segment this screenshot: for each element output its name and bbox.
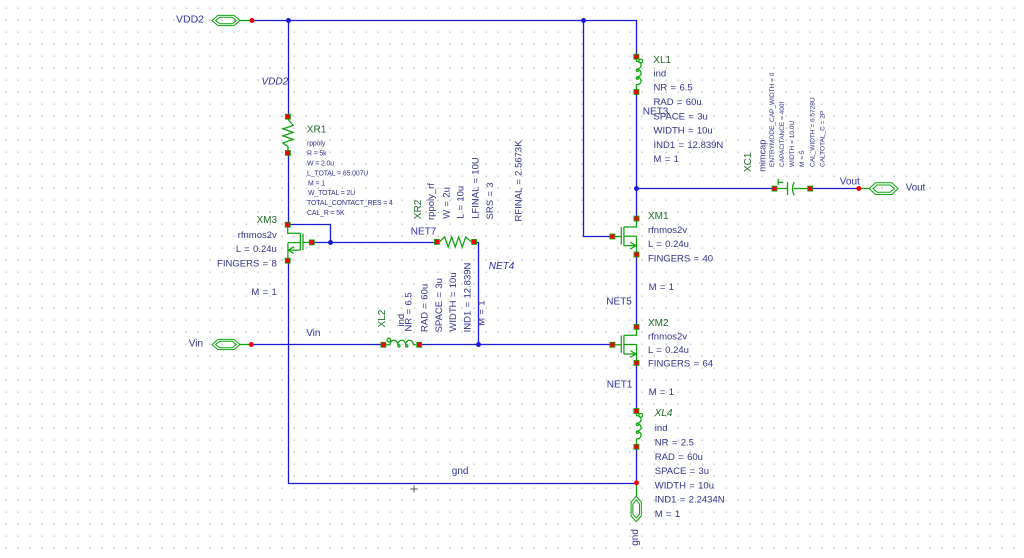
svg-text:rppoly_rf: rppoly_rf [426,183,437,220]
svg-text:TOTAL_CONTACT_RES = 4: TOTAL_CONTACT_RES = 4 [307,200,393,207]
svg-text:FINGERS = 40: FINGERS = 40 [648,253,713,264]
junction dot VDD2 rail x288 [286,18,291,23]
svg-text:WIDTH = 10u: WIDTH = 10u [448,272,459,331]
svg-text:ind: ind [654,68,667,79]
wire Vout pin stub [859,188,869,190]
wire VDD2 top rail [252,21,637,55]
svg-text:mimcap: mimcap [757,140,767,172]
svg-text:M = 1: M = 1 [251,287,276,298]
svg-text:Vout: Vout [906,183,926,194]
svg-text:SPACE = 3u: SPACE = 3u [434,278,445,332]
label XM1 params [648,225,713,293]
svg-text:R = 5k: R = 5k [307,151,327,158]
svg-text:M = 1: M = 1 [654,154,679,165]
XL2 pin squares [381,342,386,347]
svg-text:NET5: NET5 [606,296,632,307]
wire NET7 gate line to XR2 [314,242,434,244]
XM3 pin squares [285,222,290,227]
transistor XM2 body [615,330,637,361]
svg-text:IND1 = 12.839N: IND1 = 12.839N [463,262,474,332]
inductor XL1 body [636,59,642,89]
svg-text:WIDTH = 10u: WIDTH = 10u [654,126,713,137]
XC1 pin squares [772,186,777,191]
capacitor XC1 body mimcap [777,179,807,195]
svg-text:NET1: NET1 [607,380,633,391]
label XC1 params rotated [769,72,827,167]
svg-text:ind: ind [655,423,668,434]
svg-text:XM3: XM3 [256,215,277,226]
label XL1 params [654,68,724,165]
svg-text:SPACE = 3u: SPACE = 3u [654,111,708,122]
wire VDD2 to XR1 [288,21,290,115]
svg-text:W_TOTAL = 2U: W_TOTAL = 2U [308,190,355,197]
junction dot VDD2 rail x583 [581,18,586,23]
label XR2 params rotated [426,140,524,222]
junction dot XM3 gate tie [328,240,333,245]
wire XL1 to XM1 drain NET3 [636,95,638,217]
junction dot NET3 Vout tap [634,186,639,191]
wire XL4 to gnd junction [636,449,638,483]
svg-text:IND1 = 12.839N: IND1 = 12.839N [654,140,724,151]
junction dot Vout pin [856,186,861,191]
wire VDD2 pin stub [240,20,252,22]
svg-text:XR2: XR2 [413,199,424,219]
svg-text:XM1: XM1 [648,211,669,222]
svg-text:VDD2: VDD2 [262,77,289,88]
resistor XR2 body [439,237,471,247]
svg-text:rfnmos2v: rfnmos2v [238,230,277,241]
XL1 pin squares [634,54,639,59]
svg-text:M = 1: M = 1 [655,509,680,520]
pin Vin [212,339,240,349]
svg-text:WIDTH = 10u: WIDTH = 10u [655,480,714,491]
svg-text:rfnmos2v: rfnmos2v [648,331,687,342]
XR1 pin squares [285,114,290,119]
svg-text:L = 0.24u: L = 0.24u [236,244,277,255]
svg-text:IND1 = 2.2434N: IND1 = 2.2434N [655,495,725,506]
XR2 pin squares [434,239,439,244]
wire Vin rail XL2 to XM2 gate [422,344,610,346]
wire XR2 right corner down to NET4 [477,243,479,345]
svg-text:RFINAL = 2.5673K: RFINAL = 2.5673K [514,140,525,222]
wire XR1 to XM3 drain [288,155,290,222]
svg-text:LFINAL = 10U: LFINAL = 10U [470,157,481,219]
inductor XL2 body [386,338,416,347]
inductor XL4 body [636,413,642,443]
label XR1 params [307,141,393,217]
wire XM3 drain-gate tie [290,225,330,243]
svg-text:XL2: XL2 [377,309,388,327]
svg-text:NR = 6.5: NR = 6.5 [654,83,693,94]
XM1 pin squares [634,216,639,221]
XM2 pin squares [634,324,639,329]
svg-text:SPACE = 3u: SPACE = 3u [655,466,709,477]
svg-text:XM2: XM2 [648,318,669,329]
label XM3 params [217,230,277,298]
svg-text:L = 0.24u: L = 0.24u [648,345,689,356]
wire XC1 to Vout pin [813,188,859,190]
svg-text:FINGERS = 8: FINGERS = 8 [217,258,277,269]
svg-text:CAL_R = 5K: CAL_R = 5K [307,210,345,217]
junction dot Vin pin [249,342,254,347]
svg-text:NET7: NET7 [411,226,437,237]
junction dot NET4 Vin line [476,342,481,347]
svg-text:RAD = 60u: RAD = 60u [654,97,702,108]
label XL4 params [655,423,725,520]
wire Vin rail left [251,344,381,346]
svg-text:rfnmos2v: rfnmos2v [648,225,687,236]
svg-text:ENTRYMODE_CAP_WIDTH = 0: ENTRYMODE_CAP_WIDTH = 0 [769,72,776,167]
svg-text:M = 1: M = 1 [649,282,674,293]
svg-text:SRS = 3: SRS = 3 [485,182,496,219]
svg-text:NR = 6.5: NR = 6.5 [404,292,415,331]
svg-text:VDD2: VDD2 [176,13,204,25]
svg-text:XC1: XC1 [743,152,754,172]
label XL2 params rotated [396,262,488,332]
svg-text:NET4: NET4 [489,261,515,272]
wire NET5 XM1 source to XM2 drain [636,257,638,324]
origin cross [410,485,417,492]
junction dot gnd [634,480,639,485]
svg-text:CAPACITANCE = 400f: CAPACITANCE = 400f [779,101,786,167]
wire Vin pin stub [240,344,251,346]
svg-text:L = 10u: L = 10u [456,186,467,219]
svg-text:XR1: XR1 [307,125,327,136]
svg-text:RAD = 60u: RAD = 60u [420,284,431,332]
svg-text:RAD = 60u: RAD = 60u [655,452,703,463]
svg-text:FINGERS = 64: FINGERS = 64 [648,358,713,369]
svg-text:CAL_WIDTH = 6.5728U: CAL_WIDTH = 6.5728U [809,97,816,167]
svg-text:WIDTH = 10.0U: WIDTH = 10.0U [789,121,796,167]
wire XM3 source down and gnd rail [289,263,637,483]
svg-text:CALTOTAL_C = 2P: CALTOTAL_C = 2P [819,111,826,167]
pin VDD2 [212,15,240,25]
svg-text:rppoly: rppoly [307,141,326,148]
wire gnd pin stub [636,483,638,497]
wire NET1 XM2 source to XL4 [636,365,638,408]
svg-text:gnd: gnd [630,529,641,546]
svg-text:M = 1: M = 1 [649,387,674,398]
svg-text:XL1: XL1 [653,55,671,66]
svg-text:M = 1: M = 1 [477,300,488,325]
svg-text:gnd: gnd [452,466,469,477]
pin Vout [869,183,898,195]
wire VDD2 rail to XM1 gate [584,21,610,237]
svg-text:Vin: Vin [189,338,203,349]
svg-text:NR = 2.5: NR = 2.5 [655,438,694,449]
transistor XM1 body [615,221,637,252]
junction dot VDD2 pin [250,18,255,23]
XL4 pin squares [634,409,639,414]
transistor XM3 body mirrored [288,227,310,258]
svg-text:M = 5: M = 5 [799,150,806,167]
pin gnd [631,496,641,521]
svg-text:L = 0.24u: L = 0.24u [648,239,689,250]
svg-text:W = 2u: W = 2u [442,187,453,219]
svg-text:XL4: XL4 [654,408,673,419]
svg-text:L_TOTAL = 65.007U: L_TOTAL = 65.007U [307,170,368,177]
label XM2 params [648,331,713,397]
svg-text:Vout: Vout [840,177,860,188]
wire Vout line to XC1 [637,188,773,190]
svg-text:W = 2.0u: W = 2.0u [307,161,334,168]
svg-text:M = 1: M = 1 [308,180,325,187]
svg-text:Vin: Vin [306,328,320,339]
resistor XR1 body [283,120,293,151]
